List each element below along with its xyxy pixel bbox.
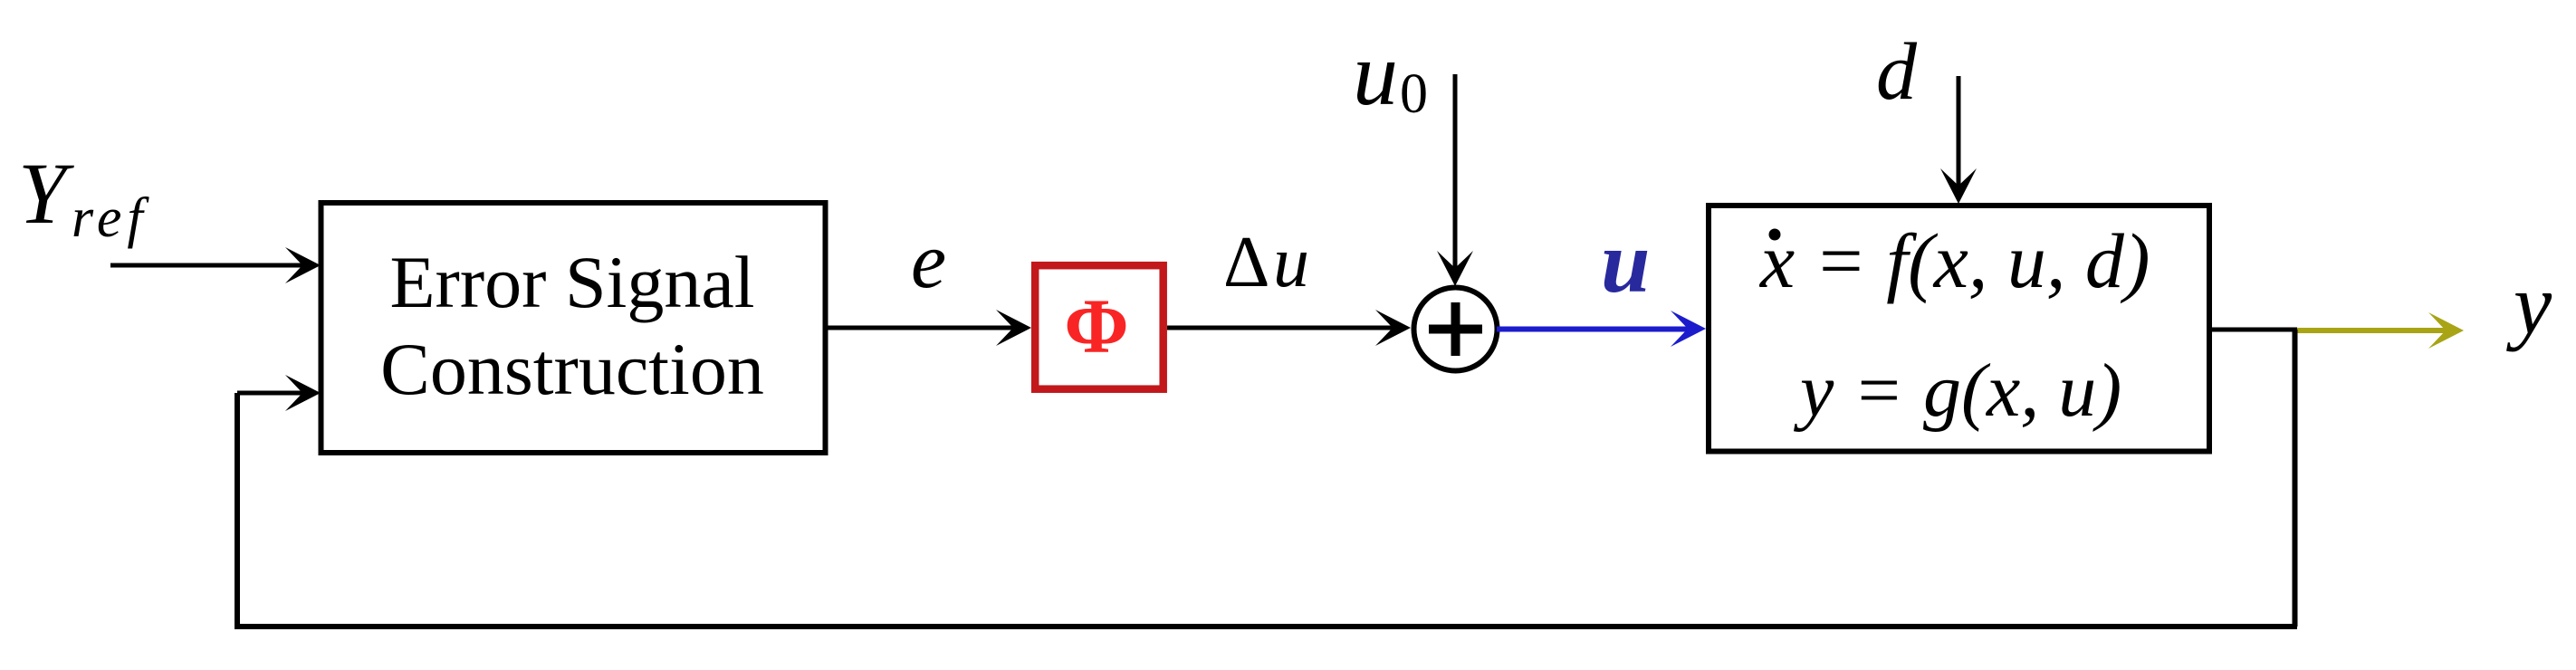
svg-text:0: 0	[1400, 63, 1428, 125]
wire feedback path	[235, 330, 2298, 629]
svg-text:Δ: Δ	[1223, 223, 1269, 302]
node Yref label	[18, 145, 149, 249]
svg-text:x = f(x, u, d): x = f(x, u, d)	[1758, 217, 2150, 304]
svg-text:Construction: Construction	[380, 328, 764, 410]
svg-text:d: d	[1876, 27, 1918, 117]
block Error Signal Construction box	[321, 203, 826, 453]
wire e signal line	[825, 310, 1031, 346]
summing junction circle	[1414, 288, 1498, 371]
svg-text:u: u	[1601, 214, 1651, 311]
block plant box	[1709, 206, 2209, 452]
wire y olive arrow	[2297, 312, 2464, 349]
svg-text:Error Signal: Error Signal	[389, 241, 754, 323]
svg-text:u: u	[1273, 223, 1309, 302]
plus sign	[1429, 302, 1482, 356]
wire Yref input arrow	[110, 247, 321, 283]
text Error Signal Construction	[380, 241, 764, 410]
wire u0 down arrow	[1437, 74, 1473, 286]
wire output black segment	[2209, 328, 2297, 332]
svg-text:y = g(x, u): y = g(x, u)	[1793, 349, 2121, 433]
svg-text:e: e	[911, 217, 946, 305]
svg-text:u: u	[1353, 24, 1398, 124]
block Phi box	[1035, 265, 1164, 389]
wire u blue arrow	[1497, 311, 1706, 347]
wire Delta-u line	[1167, 310, 1411, 346]
node Delta-u label	[1223, 223, 1309, 302]
svg-text:ref: ref	[72, 187, 149, 249]
svg-text:Φ: Φ	[1064, 282, 1128, 369]
text plant equation 1	[1758, 217, 2150, 304]
wire d down arrow	[1940, 76, 1977, 204]
svg-text:y: y	[2506, 256, 2552, 352]
wire feedback arrow into box	[237, 375, 321, 411]
node u0 label	[1353, 24, 1428, 125]
svg-text:Y: Y	[18, 145, 74, 242]
